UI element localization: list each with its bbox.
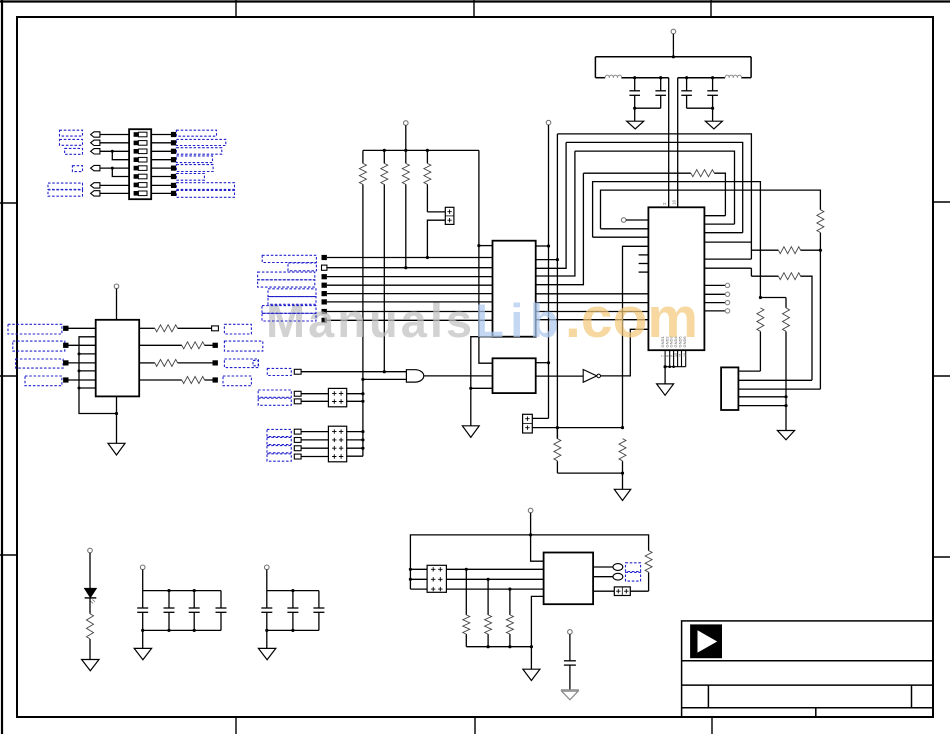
- junction R6 net: [621, 426, 624, 429]
- wire bus row D U3 to U1: [536, 319, 649, 321]
- wire U1 pin246 net622: [623, 246, 649, 427]
- zone tick bottom 2: [474, 717, 476, 734]
- wire U3 pin to leg L3: [536, 151, 575, 276]
- power pin P8: [528, 508, 533, 513]
- gate U7: [406, 370, 423, 382]
- wire R17 to ground: [89, 639, 91, 660]
- svg-text:16: 16: [672, 199, 677, 205]
- ferrite bead FB1: [605, 75, 621, 78]
- ground G10: [258, 648, 275, 659]
- net label box SW left 5: [48, 183, 83, 189]
- U2 output row1: wire resistor R8: [139, 325, 211, 332]
- header J3: [523, 414, 533, 433]
- resistor R20: [506, 589, 513, 647]
- wire U3 row1 leg L1: [556, 134, 558, 439]
- wires JB right to R1 net: [347, 432, 363, 457]
- junction JB1: [361, 430, 364, 433]
- svg-text:9: 9: [670, 355, 674, 357]
- resistor R21: [645, 551, 652, 592]
- junction supply U3: [477, 244, 480, 247]
- IC U5: [544, 553, 594, 605]
- terminal open square U2 out1: [212, 326, 219, 331]
- wire circle pin to U1: [626, 219, 648, 221]
- ground G12: [561, 690, 579, 700]
- junction strap 3: [78, 369, 81, 372]
- wire to ground G1: [634, 108, 636, 121]
- wire to ground G2: [712, 108, 714, 121]
- junction R3 net on row2: [404, 266, 407, 269]
- pin numbers under U1: [661, 353, 687, 357]
- net label box SW left 1: [60, 130, 83, 136]
- wire P2 to rail: [405, 125, 407, 150]
- junction b1: [141, 629, 144, 632]
- svg-text:10: 10: [674, 353, 678, 357]
- net label box SW right 4: [176, 156, 212, 163]
- wire branch row3 to row4: [112, 151, 129, 159]
- wire net548 vertical: [548, 125, 550, 419]
- capacitor C9: [261, 591, 272, 631]
- net label box SW right 3: [176, 148, 221, 155]
- wire LED to R17: [89, 598, 91, 614]
- wire J2 pin2 down to bus row1: [427, 220, 445, 257]
- wire bus row B U3 to U1: [536, 302, 649, 304]
- wire P4 to U2: [116, 289, 118, 320]
- IC U3: [493, 241, 536, 337]
- terminal open squares JB: [294, 429, 301, 459]
- resistor R1: [359, 150, 366, 456]
- net label box bus8: [262, 313, 316, 321]
- wire gate output to U4: [424, 375, 492, 377]
- wire P7 to rail: [266, 570, 268, 591]
- net label box bus3: [258, 272, 315, 280]
- LED D1: [85, 588, 97, 603]
- wire P8 down: [531, 513, 544, 561]
- capacitor C2: [655, 78, 666, 109]
- wire J4 pinE: [738, 405, 786, 407]
- junction JB2: [361, 438, 364, 441]
- DIP switch S1 body: [129, 129, 151, 199]
- net label box SW left 2: [60, 139, 83, 145]
- net label box SW left 3: [65, 148, 83, 154]
- ground G2: [705, 121, 722, 129]
- wire C3-C4 ground rail: [687, 107, 713, 109]
- capacitor C3: [681, 78, 692, 109]
- header JA 2x2: [328, 388, 346, 406]
- wire bus1 to U5: [410, 568, 543, 570]
- junction S1 row3 branch: [111, 150, 114, 153]
- wire arrow2 to S1: [100, 142, 129, 144]
- zone tick left 3: [0, 554, 17, 556]
- wire U3 bottom pin to ground: [471, 337, 493, 426]
- power pin P5: [88, 548, 93, 553]
- wire gate input: [301, 371, 406, 373]
- net label box U2 in2: [13, 341, 65, 351]
- wire JA1 left: [301, 393, 328, 395]
- zone tick right 3: [933, 556, 950, 558]
- net label box SW right 5: [176, 165, 213, 172]
- junction tap R19: [487, 578, 490, 581]
- IC U1: [648, 207, 704, 350]
- wire JA2 right to R1 net: [347, 400, 363, 402]
- terminal open square JA2: [294, 399, 301, 404]
- net label box U2 out4: [223, 376, 251, 386]
- watermark ManualsLib.com: [266, 286, 698, 350]
- input arrow pin row8: [91, 191, 100, 196]
- zone tick bottom 1: [235, 717, 237, 734]
- net label box SW right 1: [176, 130, 216, 136]
- net label box JB3: [267, 446, 291, 453]
- U5 right oval pin2: [593, 573, 623, 580]
- junction ground net U4: [469, 387, 472, 390]
- IC U2: [96, 320, 140, 397]
- net label box U2 in4: [25, 376, 62, 386]
- ground G3: [614, 489, 630, 500]
- input arrow pin row3: [91, 149, 100, 154]
- net label box gate input: [267, 368, 291, 375]
- junction JA1: [361, 392, 364, 395]
- bus bar FB1/FB2 outline: [595, 57, 751, 78]
- wire supply to U3 top pin: [479, 245, 493, 247]
- net label box SW right 7: [176, 183, 234, 190]
- U1 left stub pins: [639, 255, 649, 272]
- net label box bus7: [262, 306, 316, 314]
- capacitor C10: [287, 591, 298, 631]
- ferrite bead FB2: [725, 75, 741, 78]
- nested row3: [575, 151, 735, 224]
- junction leg L1: [556, 258, 559, 261]
- net label box U2 out3: [224, 359, 258, 368]
- net label box bus1: [262, 255, 316, 262]
- terminal squares bus rows: [322, 255, 327, 323]
- net label box SW right 2: [176, 139, 225, 145]
- net label fragment: [253, 360, 258, 365]
- cap bank2 bottom rail: [267, 629, 319, 631]
- U2 output row3: wire resistor R10: [139, 359, 212, 366]
- U5 right oval pin1: [593, 564, 623, 571]
- junction JA2: [361, 400, 364, 403]
- power pin P4: [114, 284, 119, 289]
- junction Rc pinE: [784, 404, 787, 407]
- resistor R3: [402, 150, 409, 267]
- net label box U2 in1: [8, 324, 62, 334]
- supply rail: [363, 149, 479, 151]
- pin circle P3: [546, 120, 551, 125]
- wire J4 pinB: [738, 379, 812, 381]
- wire arrow1 to S1: [100, 134, 129, 136]
- U1 right pin wires to nested legs: [704, 216, 751, 269]
- net label box SW right 8: [176, 190, 234, 197]
- nested row6: [601, 190, 821, 229]
- net label box JB4: [267, 454, 291, 461]
- pin labels GND1-6: [660, 336, 687, 348]
- junction b2: [265, 629, 268, 632]
- zone tick top 2: [473, 0, 475, 17]
- wire bank1 to ground: [142, 630, 144, 648]
- junction C1 rail: [633, 107, 636, 110]
- IC U4: [493, 358, 536, 393]
- resistor bottom rail: [466, 646, 531, 648]
- U1 GND pin stubs: [665, 350, 686, 367]
- terminal squares S1 right: [171, 132, 176, 196]
- zone tick right 1: [933, 201, 950, 203]
- wire bus row C U3 to U1: [536, 311, 649, 313]
- net label box SW left 4: [72, 166, 82, 172]
- wire U5 gnd pin down: [531, 596, 543, 669]
- wire bus2 to U5: [410, 578, 543, 580]
- wire arrow8 to S1: [100, 192, 129, 194]
- ground G6: [657, 384, 674, 395]
- cap bank1 bottom rail: [143, 629, 221, 631]
- zone tick left 2: [0, 375, 17, 377]
- wire U3 pin to leg L4: [536, 173, 584, 285]
- resistor R2: [381, 150, 388, 371]
- wire U2 bottom to ground: [116, 396, 118, 443]
- junction U2 ground: [115, 412, 118, 415]
- junction cap C4 tap: [711, 76, 714, 79]
- junction Rb top: [759, 296, 762, 299]
- header J5 3x2: [427, 565, 446, 592]
- junction bus top: [672, 55, 675, 58]
- junction cap C2 tap: [659, 76, 662, 79]
- net label box SW left 6: [48, 190, 83, 196]
- resistor R5: [554, 428, 561, 474]
- wire U3 pin to leg L2: [536, 142, 566, 268]
- capacitor C5: [137, 591, 148, 631]
- junction rail R3: [404, 149, 407, 152]
- power pin P7: [265, 565, 270, 570]
- junction tap R20: [508, 588, 511, 591]
- wire J6 to R21: [630, 590, 648, 592]
- wire J4 pinC: [738, 388, 820, 390]
- capacitor C7: [189, 591, 200, 631]
- junction R5 top: [556, 426, 559, 429]
- junction R12 Ra: [819, 249, 822, 252]
- header J6: [614, 587, 630, 596]
- ground G4: [462, 426, 479, 438]
- capacitor C8: [216, 591, 227, 631]
- svg-text:15: 15: [683, 353, 687, 357]
- wire gate input2 from R1 net: [363, 378, 407, 380]
- wire ground net to U4: [471, 387, 493, 389]
- top loop wire: [410, 535, 648, 589]
- junction C4 rail: [711, 107, 714, 110]
- input arrow pin row2: [91, 140, 100, 145]
- resistor R17: [87, 614, 94, 639]
- wire VCC2 bus to U1: [677, 78, 679, 208]
- net label box JB1: [267, 429, 291, 436]
- net label box U2 out2: [224, 341, 262, 351]
- wires U2 inputs: [69, 328, 96, 380]
- net label box bus6: [268, 297, 316, 305]
- net label box bus4: [258, 280, 315, 287]
- nested row2: [566, 142, 743, 232]
- wire bus row A U3 to U1: [536, 293, 649, 295]
- junction c10: [291, 589, 294, 592]
- net label box U2 out1: [224, 324, 251, 334]
- ground G5: [108, 443, 125, 455]
- terminal square U2 out2: [213, 343, 218, 348]
- wire C1-C2 ground rail: [635, 107, 661, 109]
- logo Analog Devices: [690, 624, 722, 658]
- capacitor C1: [629, 78, 640, 109]
- net label box JA1: [258, 390, 291, 397]
- junction net548 U3: [547, 244, 550, 247]
- net label box U5 out2: [626, 572, 641, 581]
- header J2: [445, 207, 454, 224]
- wire R5-R6 bottom rail: [557, 472, 622, 474]
- junction strap 4: [78, 387, 81, 390]
- zone tick right 2: [933, 375, 950, 377]
- wire U3 pin to net548: [536, 245, 549, 247]
- wire GND bar to ground: [664, 367, 666, 384]
- wire branch row5 to row6: [112, 168, 129, 176]
- wire U3 pin to leg L1: [536, 259, 558, 261]
- junction JB3: [361, 447, 364, 450]
- connector J4: [721, 367, 738, 410]
- capacitor C6: [164, 591, 175, 631]
- junction R1 net gate: [361, 378, 364, 381]
- cap bank2 top rail: [267, 590, 319, 592]
- net label box SW right 6: [176, 174, 204, 181]
- nested row5: [593, 182, 761, 298]
- DIP wires left: [100, 135, 129, 194]
- resistor R4: [424, 150, 431, 212]
- inverter U6: [536, 329, 649, 382]
- junction strap 2: [78, 352, 81, 355]
- bus net label boxes (over watermark): [258, 255, 317, 321]
- junction GND bar: [664, 365, 667, 368]
- net label box bus2: [288, 263, 316, 271]
- power pin P6: [140, 565, 145, 570]
- terminal open square JA1: [294, 391, 301, 396]
- terminal squares U2 inputs: [63, 326, 68, 383]
- ground G7: [777, 431, 794, 440]
- wire P6 to rail: [142, 570, 144, 591]
- resistor R6: [619, 439, 626, 490]
- wire J3 pin1 to net548: [532, 417, 548, 419]
- svg-text:11: 11: [678, 353, 682, 357]
- junction Rc pinD: [784, 395, 787, 398]
- zone tick left 1: [0, 202, 17, 204]
- net label box bus5: [268, 289, 316, 297]
- cap bank1 top rail: [143, 590, 221, 592]
- U2 output row2: wire resistor R9: [139, 342, 212, 349]
- wire J4 pinD: [738, 396, 786, 398]
- header JB 4x2: [328, 426, 346, 462]
- U2 strap rail pins: [79, 337, 117, 414]
- junction S1 row5 branch: [111, 167, 114, 170]
- junction tap R18: [465, 568, 468, 571]
- junction c7: [193, 589, 196, 592]
- wire J4 pinA: [738, 370, 760, 372]
- junction c6: [167, 589, 170, 592]
- wire Rb-Rc top link: [760, 297, 786, 299]
- wire bank2 to ground: [266, 630, 268, 648]
- resistor R13 row2: [751, 273, 812, 381]
- bracket bar row1: [750, 242, 752, 259]
- bracket bar row2: [750, 268, 752, 276]
- ground G9: [134, 648, 151, 659]
- bus wires rows 1-8: [327, 258, 493, 321]
- junction net548 U4: [547, 361, 550, 364]
- svg-text:ManualsLib.com: ManualsLib.com: [266, 286, 698, 350]
- capacitor C11: [313, 591, 324, 631]
- junction rail R6: [621, 472, 624, 475]
- terminal square U2 out4: [213, 377, 218, 382]
- wire R4 to J2 pin1: [427, 211, 445, 213]
- wire arrow3 to S1: [100, 150, 129, 152]
- ground G1: [627, 121, 644, 129]
- wire U4 pin to net548: [536, 362, 549, 364]
- U1 right open-circle pins: [704, 283, 729, 313]
- wire JA1 right to R1 net: [347, 393, 363, 395]
- resistor R16 (Rc): [783, 298, 790, 431]
- resistor R15 (Rb): [757, 308, 764, 371]
- resistor R19: [485, 579, 492, 646]
- junction cap C3 tap: [685, 76, 688, 79]
- junction rail R2: [383, 149, 386, 152]
- wire U5 to J6: [593, 590, 614, 592]
- U2 output row4: wire resistor R11: [139, 377, 212, 384]
- ground G8: [82, 660, 99, 671]
- net label box U5 out1: [626, 563, 641, 572]
- svg-text:7: 7: [661, 355, 665, 357]
- resistor R12 row1: [751, 247, 820, 254]
- supply rail drop to U3: [479, 150, 493, 363]
- wire bus3 to U5: [410, 588, 543, 590]
- wires JB left: [301, 432, 328, 457]
- input arrow pin row5: [91, 165, 100, 170]
- ground G11: [523, 669, 540, 680]
- wire P5 to LED: [89, 553, 91, 589]
- zone tick bottom 3: [711, 717, 713, 734]
- wire J3 pin2 to resistors: [532, 427, 622, 429]
- junction top wire: [529, 533, 532, 536]
- wire arrow5 to S1: [100, 167, 129, 169]
- capacitor C4: [707, 78, 718, 109]
- junction bracket pin2: [409, 578, 412, 581]
- zone tick top 1: [235, 0, 237, 17]
- terminal open square gate input: [294, 369, 301, 374]
- pin circle U1 left: [621, 218, 626, 223]
- wire P1 to bus: [672, 34, 674, 57]
- nested row4 with resistor R7: [583, 170, 725, 216]
- input arrow pin row7: [91, 183, 100, 188]
- net label box JA2: [258, 398, 291, 405]
- junction rail R4: [426, 149, 429, 152]
- power pin P9: [568, 630, 573, 635]
- junction bracket pin1: [409, 568, 412, 571]
- nested row1: [557, 134, 751, 242]
- wire arrow7 to S1: [100, 184, 129, 186]
- junction cap C1 tap: [633, 76, 636, 79]
- net label box JB2: [267, 437, 291, 444]
- input arrow pin row1: [91, 132, 100, 137]
- wire VCC1 bus to U1: [668, 78, 670, 208]
- junction R2 on gate wire: [383, 370, 386, 373]
- resistor R14 (Ra): [817, 210, 824, 389]
- junction rail r19: [487, 645, 490, 648]
- net label box U2 in3: [16, 359, 64, 368]
- wire JA2 left: [301, 400, 328, 402]
- DIP switch S1 cells: [134, 132, 147, 195]
- DIP wires right: [151, 135, 171, 194]
- power pin P2: [404, 121, 409, 126]
- terminal square U2 out3: [213, 360, 218, 365]
- title block: [682, 621, 933, 717]
- power pin P1: [671, 29, 676, 34]
- zone tick top 3: [710, 0, 712, 17]
